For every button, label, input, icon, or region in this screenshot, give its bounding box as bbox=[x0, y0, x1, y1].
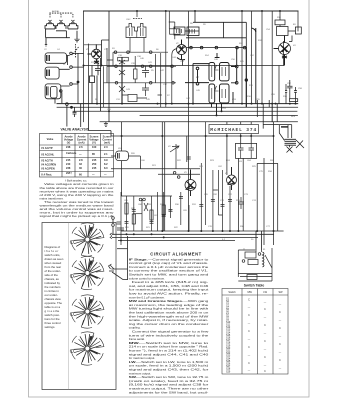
svg-text:(mA): (mA) bbox=[104, 141, 110, 145]
lower top bus bbox=[111, 135, 274, 137]
svg-text:U.4 Rect.: U.4 Rect. bbox=[41, 173, 52, 177]
switch table bbox=[222, 289, 288, 375]
wire bus y65 bbox=[84, 65, 284, 67]
volume pot bbox=[170, 144, 179, 169]
valve analysis table bbox=[40, 134, 114, 178]
wire ift2 verticals bbox=[193, 28, 256, 115]
wafer box divider bbox=[68, 223, 70, 390]
svg-text:2.3: 2.3 bbox=[104, 145, 108, 149]
wire elec leads bbox=[238, 122, 251, 231]
coil marks box1 bbox=[47, 55, 50, 61]
switch contact S12 bbox=[149, 65, 152, 68]
wire osc leads bbox=[130, 11, 144, 52]
IFT2 winding box a bbox=[209, 63, 215, 81]
svg-text:248: 248 bbox=[66, 145, 71, 149]
junction blob x246 bbox=[245, 79, 247, 81]
switch contact S19 bbox=[215, 46, 218, 49]
wafer switch 4 bbox=[71, 332, 104, 365]
inner coil box 3b bbox=[51, 86, 58, 98]
svg-text:250: 250 bbox=[92, 162, 97, 166]
valve V1 bbox=[92, 49, 102, 59]
svg-text:settings.: settings. bbox=[45, 325, 56, 329]
valve V3 bbox=[185, 180, 196, 191]
aerial terminal bbox=[45, 38, 47, 46]
speaker magnet X bbox=[287, 145, 293, 152]
wire mid bar bbox=[133, 213, 142, 215]
wire v1 leads bbox=[92, 11, 109, 122]
wire cluster verticals bbox=[121, 122, 230, 245]
svg-text:C: C bbox=[264, 324, 266, 327]
wire vertical x251.5 bbox=[251, 11, 253, 104]
svg-text:(V): (V) bbox=[92, 141, 96, 145]
svg-text:C: C bbox=[264, 340, 266, 343]
box right bbox=[295, 27, 301, 34]
wire subcircuit feeds bbox=[256, 231, 262, 250]
switch contact S15 bbox=[149, 82, 152, 85]
coil marks box2 bbox=[47, 70, 50, 77]
speaker transformer bars bbox=[285, 139, 297, 145]
speaker cone bbox=[279, 125, 291, 141]
speaker diagonals bbox=[296, 140, 304, 148]
svg-text:C: C bbox=[248, 299, 250, 302]
caps left marks bbox=[112, 217, 115, 220]
wire ift2 leads bbox=[185, 53, 237, 83]
earth bus y231 bbox=[121, 230, 284, 232]
svg-text:V4 AC/2PEN: V4 AC/2PEN bbox=[41, 163, 56, 167]
wire left vertical x83.5 bbox=[83, 11, 85, 122]
aerial coil L1 bbox=[49, 14, 51, 18]
svg-text:adjustments for the SW band, b: adjustments for the SW band, but oscil- bbox=[129, 390, 209, 394]
aerial coils dashed label box bbox=[49, 12, 73, 14]
band coil box 2 bbox=[45, 67, 59, 79]
svg-text:V5 AC/PEN: V5 AC/PEN bbox=[41, 167, 55, 171]
aerial coil L2 bbox=[60, 14, 62, 18]
wire box lead bbox=[169, 22, 175, 39]
wire grid link bbox=[84, 40, 109, 45]
osc transformer outline bbox=[126, 24, 146, 38]
box AC/PEN bbox=[277, 27, 289, 36]
svg-text:McMICHAEL 374: McMICHAEL 374 bbox=[210, 127, 257, 133]
trimmer stack C38-C43 bbox=[121, 57, 123, 104]
svg-text:MW: MW bbox=[247, 291, 252, 294]
wire step bbox=[213, 190, 244, 215]
valve V2 bbox=[177, 45, 187, 55]
wafer switch 1 bbox=[71, 223, 104, 256]
wire coil leads right bbox=[59, 53, 83, 91]
wire verticals mid bbox=[140, 122, 186, 231]
svg-text:VC: VC bbox=[168, 146, 171, 148]
svg-text:C: C bbox=[279, 311, 281, 314]
box top right bbox=[170, 29, 180, 34]
wire osc horizontals bbox=[107, 60, 162, 98]
component value labels bbox=[44, 10, 303, 251]
valve V4 bbox=[279, 43, 291, 55]
IFT2 winding box b bbox=[220, 63, 230, 81]
switch row y66.3 bbox=[107, 65, 176, 67]
svg-text:Switch Table: Switch Table bbox=[244, 283, 265, 287]
osc coils dashed label bbox=[133, 18, 142, 20]
resistor R14 bbox=[162, 205, 165, 215]
electrolytic block bbox=[236, 143, 257, 158]
circle pair bbox=[139, 198, 142, 201]
wafer switch 3 bbox=[71, 295, 104, 328]
wire HT bus y103.6 bbox=[57, 103, 298, 105]
svg-text:240: 240 bbox=[66, 162, 71, 166]
wire vertical x188 bbox=[188, 11, 190, 231]
svg-text:0.9: 0.9 bbox=[104, 158, 108, 162]
wire bus y115.4 bbox=[140, 114, 298, 116]
trimmer arrows bbox=[212, 65, 226, 99]
wire aerial shelf bbox=[45, 29, 78, 39]
wire diag bbox=[252, 28, 256, 32]
resistor R3 bbox=[90, 76, 95, 83]
tuning gang dashed bbox=[73, 44, 79, 58]
resistor R4 bbox=[118, 57, 129, 61]
svg-text:C: C bbox=[264, 356, 266, 359]
valve V5 bbox=[227, 175, 237, 185]
resistor R13 bbox=[150, 210, 153, 220]
trimmer arrows bbox=[144, 203, 148, 211]
switch contact S1 bbox=[70, 52, 73, 55]
wire right col verticals bbox=[272, 41, 283, 122]
switch contact S24 bbox=[235, 65, 238, 68]
capacitor ticks lower cluster bbox=[125, 157, 233, 223]
switch row y82.8 bbox=[104, 82, 177, 84]
switch contact S22 bbox=[196, 67, 199, 70]
switch contact S5 bbox=[66, 103, 69, 106]
bus stub y248.7 bbox=[117, 248, 128, 250]
switch contact S30 bbox=[242, 260, 245, 263]
wire vertical x242 bbox=[241, 11, 243, 104]
resistor R12 bbox=[132, 214, 135, 224]
wire link to lower bus bbox=[89, 107, 112, 136]
McMICHAEL 374 label bbox=[209, 125, 259, 134]
svg-text:2.8: 2.8 bbox=[79, 158, 83, 162]
ground aerial bbox=[74, 39, 79, 42]
svg-text:VALVE ANALYSIS: VALVE ANALYSIS bbox=[61, 128, 90, 132]
svg-text:C: C bbox=[279, 359, 281, 362]
label bar bbox=[281, 126, 288, 128]
svg-text:245: 245 bbox=[66, 158, 71, 162]
ground G2 bbox=[104, 122, 108, 127]
svg-text:signal that might be picked up: signal that might be picked up a 0.1 µF bbox=[40, 214, 114, 218]
band coil box 3 bbox=[45, 84, 61, 99]
resistor box top bbox=[275, 20, 285, 25]
switch box S29 bbox=[248, 260, 258, 265]
svg-text:ing the cursor drum on the con: ing the cursor drum on the condenser bbox=[129, 322, 209, 326]
svg-text:AERIAL: AERIAL bbox=[52, 10, 60, 13]
fuse box bbox=[247, 275, 257, 280]
wire bus y107.3 bbox=[57, 106, 298, 108]
svg-text:Cathode: Cathode bbox=[66, 151, 77, 155]
svg-text:C: C bbox=[248, 346, 250, 349]
aerial coil L3 bbox=[72, 14, 74, 18]
svg-text:2.1: 2.1 bbox=[104, 152, 108, 156]
switch contact S7 bbox=[114, 51, 117, 54]
cathode parts bbox=[95, 64, 101, 76]
switch contact S9 bbox=[149, 51, 152, 54]
svg-text:—: — bbox=[104, 174, 107, 177]
subcircuit outline bbox=[238, 248, 272, 281]
wire top bus bbox=[84, 10, 299, 12]
svg-text:(mA): (mA) bbox=[79, 141, 85, 145]
resistor bar bbox=[290, 99, 298, 102]
svg-text:C: C bbox=[279, 343, 281, 346]
wire if leads bbox=[183, 11, 247, 66]
choke marks bbox=[118, 153, 120, 159]
switch contact S13 bbox=[171, 65, 174, 68]
svg-text:8.0: 8.0 bbox=[104, 166, 108, 170]
svg-text:295†: 295† bbox=[66, 171, 72, 175]
bus y237.4 bbox=[112, 236, 258, 238]
switch contact S3 bbox=[70, 83, 73, 86]
svg-text:245: 245 bbox=[92, 158, 97, 162]
switch contact S14 bbox=[115, 82, 118, 85]
svg-text:Switch: Switch bbox=[228, 291, 236, 294]
wafer switch box bbox=[42, 223, 116, 390]
resistor R5 bbox=[134, 69, 138, 79]
bus y234.3 bbox=[112, 233, 274, 235]
wire vertical x88.5 bbox=[88, 44, 90, 107]
switch contact S21 bbox=[243, 46, 246, 49]
switch contact S31 bbox=[258, 253, 261, 256]
switch row y47.6 bbox=[186, 47, 247, 49]
bus end arrows bbox=[110, 233, 112, 239]
wire bus y121.8 bbox=[100, 121, 298, 123]
IFT2 winding box c bbox=[209, 84, 215, 103]
wire vertical x298 bbox=[297, 11, 299, 31]
svg-text:LW: LW bbox=[263, 291, 267, 294]
switch contact S11 bbox=[141, 65, 144, 68]
svg-text:C: C bbox=[248, 314, 250, 317]
svg-text:—: — bbox=[92, 174, 95, 177]
switch contact S20 bbox=[236, 46, 239, 49]
bus y240.5 bbox=[118, 240, 235, 242]
box C40 bbox=[128, 95, 137, 102]
IFT2 winding box d bbox=[220, 84, 230, 103]
wafer text bbox=[45, 245, 64, 329]
band coil box 1 bbox=[45, 53, 66, 63]
left paragraph bbox=[40, 182, 115, 218]
osc transformer hatches bbox=[130, 28, 144, 38]
svg-text:CIRCUIT ALIGNMENT: CIRCUIT ALIGNMENT bbox=[150, 251, 201, 256]
switch box S28 bbox=[245, 252, 256, 258]
svg-text:C: C bbox=[248, 362, 250, 365]
svg-text:2.6: 2.6 bbox=[79, 145, 83, 149]
wire sub leads bbox=[256, 250, 262, 252]
mains coil bbox=[263, 252, 265, 267]
svg-text:V3 AC/TH: V3 AC/TH bbox=[41, 159, 53, 163]
svg-text:V2 AC/2HL: V2 AC/2HL bbox=[41, 153, 55, 157]
switch contact S27 bbox=[177, 176, 180, 179]
junction S6 bbox=[71, 106, 73, 108]
switch contact S8 bbox=[127, 51, 130, 54]
switch contact S26 bbox=[173, 172, 176, 175]
svg-text:238: 238 bbox=[66, 166, 71, 170]
capacitor C33 bbox=[73, 107, 77, 117]
svg-text:Valve: Valve bbox=[47, 137, 54, 141]
switch contact S18 bbox=[200, 46, 203, 49]
wire v4 leads bbox=[280, 11, 295, 42]
svg-text:C: C bbox=[264, 370, 266, 373]
svg-text:C: C bbox=[279, 327, 281, 330]
svg-text:V1 AC/TP: V1 AC/TP bbox=[41, 146, 53, 150]
wire cluster top bbox=[121, 195, 172, 197]
switch contact S17 bbox=[190, 46, 193, 49]
wire pickup branch bbox=[111, 236, 127, 280]
switch contact S2 bbox=[70, 66, 73, 69]
grid resistor boxes bbox=[174, 27, 185, 35]
coil marks box3 bbox=[47, 86, 49, 95]
wire vertical x262 bbox=[261, 11, 263, 104]
switch row y52 bbox=[113, 51, 168, 53]
wire vertical x272 bbox=[271, 11, 273, 122]
alignment text column bbox=[129, 257, 210, 394]
decoupling caps right bbox=[287, 80, 292, 99]
switch contact S4 bbox=[60, 90, 63, 93]
svg-text:OSC: OSC bbox=[126, 19, 131, 21]
wafer number markers bbox=[70, 240, 73, 352]
svg-text:SPK: SPK bbox=[291, 116, 296, 118]
wire choke leads bbox=[111, 122, 140, 196]
wire bus y111.3 bbox=[73, 110, 297, 112]
svg-text:100: 100 bbox=[92, 145, 97, 149]
wire band verticals bbox=[55, 53, 81, 127]
pickup symbol bbox=[109, 264, 115, 271]
wire anode feed x246 bbox=[245, 48, 247, 107]
wire feed lines bbox=[257, 100, 291, 129]
resistor R11 bbox=[125, 203, 128, 214]
diagonal link bbox=[265, 255, 272, 268]
svg-text:—: — bbox=[79, 153, 82, 156]
switch contact S25 bbox=[235, 82, 238, 85]
wire mid horizontals bbox=[111, 169, 200, 231]
wire right lower verticals bbox=[227, 122, 278, 245]
wafer switch 2 bbox=[71, 256, 104, 289]
junction blob bbox=[77, 81, 79, 83]
wire osc verticals bbox=[104, 11, 172, 107]
svg-text:S29: S29 bbox=[226, 370, 231, 373]
AF choke box bbox=[116, 151, 129, 161]
switch contact S23 bbox=[196, 82, 199, 85]
switch contact S16 bbox=[172, 82, 175, 85]
padder caps bbox=[142, 66, 149, 77]
svg-text:SW: SW bbox=[278, 291, 283, 294]
switch contact S10 bbox=[115, 65, 118, 68]
svg-text:(V): (V) bbox=[67, 141, 71, 145]
svg-text:8.2: 8.2 bbox=[104, 162, 108, 166]
svg-text:C: C bbox=[264, 308, 266, 311]
svg-text:245: 245 bbox=[92, 166, 97, 170]
svg-text:C: C bbox=[248, 330, 250, 333]
